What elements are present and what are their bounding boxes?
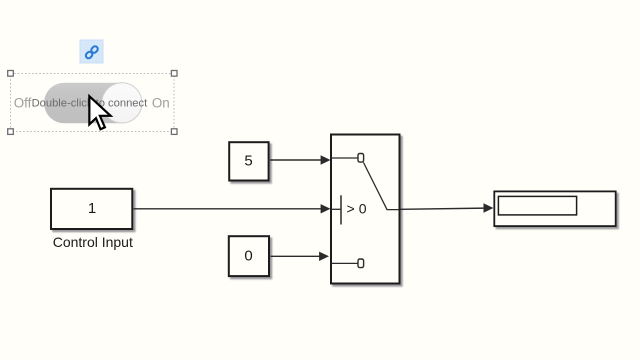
- wire Constant5 to Switch input 1: [270, 155, 331, 164]
- constant block 0: [229, 236, 269, 276]
- wire Control Input to Switch input 2: [134, 204, 331, 213]
- switch port 3 marker: [358, 259, 364, 268]
- mouse cursor: [89, 96, 110, 129]
- wire Constant0 to Switch input 3: [271, 252, 330, 261]
- switch inner line input 2: [332, 208, 342, 210]
- switch inner line input 3: [332, 262, 359, 264]
- switch block U1: [331, 135, 400, 284]
- switch selector diagonal: [364, 163, 400, 210]
- switch threshold label > 0: [347, 200, 367, 216]
- constant block 1 (Control Input): [51, 189, 132, 229]
- switch inner line input 1: [332, 157, 359, 159]
- svg-text:5: 5: [244, 153, 252, 170]
- display block outer: [494, 191, 615, 226]
- selection handle bottom-left: [8, 129, 14, 135]
- display block inner field: [498, 196, 576, 215]
- switch port 1 marker: [358, 154, 364, 163]
- selection handle top-left: [8, 71, 14, 77]
- switch threshold crossbar: [340, 195, 342, 224]
- wire Switch to Display: [400, 203, 493, 212]
- svg-text:1: 1: [88, 200, 96, 217]
- link icon: [85, 45, 99, 59]
- toggle knob: [102, 83, 142, 123]
- link badge highlight: [80, 40, 103, 63]
- svg-text:Off: Off: [14, 96, 32, 111]
- selection handle top-right: [171, 71, 177, 77]
- toggle switch pill: [44, 83, 140, 124]
- svg-text:On: On: [152, 96, 170, 111]
- selection handle bottom-right: [171, 129, 177, 135]
- svg-text:0: 0: [244, 247, 252, 264]
- svg-text:>: >: [347, 200, 355, 216]
- constant block 5: [229, 142, 268, 180]
- svg-text:Control Input: Control Input: [53, 234, 133, 250]
- selection rectangle: [11, 74, 175, 132]
- svg-text:0: 0: [359, 200, 367, 216]
